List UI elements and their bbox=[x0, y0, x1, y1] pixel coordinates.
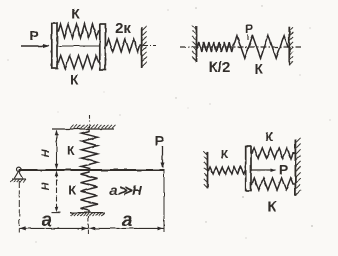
ceiling hatching (diagram 3) bbox=[70, 125, 74, 129]
svg-text:2к: 2к bbox=[115, 20, 131, 37]
svg-text:К: К bbox=[71, 6, 80, 22]
left extension line (diagram 3) bbox=[18, 181, 20, 233]
center extension dashes (diagram 3) bbox=[87, 216, 89, 234]
bottom dimension line a,a (diagram 3) bbox=[19, 227, 164, 229]
spring K bottom (diagram 1) bbox=[57, 56, 100, 69]
H dimension upper (diagram 3) bbox=[56, 131, 58, 169]
svg-text:Н: Н bbox=[40, 148, 52, 157]
middle bar (diagram 4) bbox=[246, 147, 251, 191]
svg-text:К: К bbox=[255, 61, 264, 76]
top spring K (diagram 4) bbox=[251, 148, 294, 159]
beam / lever (diagram 3) bbox=[19, 169, 164, 171]
svg-text:Р: Р bbox=[279, 161, 288, 177]
left wall (diagram 2) bbox=[196, 26, 198, 62]
svg-text:К/2: К/2 bbox=[209, 59, 231, 76]
force P arrow (diagram 4) bbox=[251, 169, 275, 171]
force P arrow (diagram 1) bbox=[21, 45, 49, 47]
right extension line (diagram 3) bbox=[163, 171, 165, 232]
vertical axis dash-dot above ceiling (diagram 3) bbox=[89, 115, 91, 129]
svg-text:Р: Р bbox=[29, 28, 38, 44]
axis dash-dot line (diagram 2) bbox=[180, 46, 302, 48]
left wall (diagram 4) bbox=[207, 151, 209, 188]
left spring K (diagram 4) bbox=[208, 167, 246, 174]
spring K (diagram 2) bbox=[233, 36, 289, 59]
svg-text:К: К bbox=[68, 183, 76, 198]
force P arrow down (diagram 3) bbox=[162, 146, 164, 167]
svg-text:Р: Р bbox=[245, 22, 253, 36]
center line between bars (diagram 1) bbox=[57, 45, 100, 47]
ceiling line with dimension tick (diagram 3) bbox=[52, 128, 114, 130]
floor anchor hatching (diagram 3) bbox=[71, 213, 74, 216]
right wall (diagram 2) bbox=[288, 27, 290, 66]
right wall (diagram 1) bbox=[141, 27, 143, 68]
upper spring K (diagram 3) bbox=[82, 130, 98, 171]
spring 2K (diagram 1) bbox=[106, 39, 142, 52]
pivot hinge (diagram 3) bbox=[17, 167, 21, 171]
svg-text:а≫Н: а≫Н bbox=[110, 182, 143, 198]
svg-text:К: К bbox=[67, 144, 75, 158]
svg-text:К: К bbox=[70, 72, 79, 87]
spring K top (diagram 1) bbox=[57, 24, 100, 38]
svg-text:Н: Н bbox=[40, 181, 52, 190]
svg-text:К: К bbox=[265, 130, 273, 144]
floor level tick at H dimension (diagram 3) bbox=[52, 212, 61, 214]
axis dash-dot right of wall (diagram 1) bbox=[143, 45, 156, 47]
right connecting bar (diagram 1) bbox=[100, 24, 106, 70]
svg-text:К: К bbox=[221, 147, 229, 161]
left connecting bar (diagram 1) bbox=[52, 23, 57, 68]
svg-text:К: К bbox=[267, 198, 277, 215]
floor anchor line (diagram 3) bbox=[71, 212, 106, 214]
svg-text:а: а bbox=[41, 210, 52, 231]
H dimension lower (diagram 3) bbox=[56, 172, 58, 212]
svg-text:а: а bbox=[122, 210, 133, 231]
spring K/2 (diagram 2) bbox=[197, 42, 234, 52]
lower spring K (diagram 3) bbox=[81, 171, 98, 213]
right wall (diagram 4) bbox=[294, 139, 296, 195]
bottom spring K (diagram 4) bbox=[251, 178, 294, 190]
